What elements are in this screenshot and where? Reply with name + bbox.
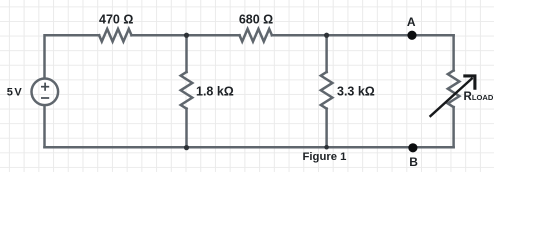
svg-text:A: A xyxy=(407,15,416,29)
wire branch 1.8k top xyxy=(185,35,188,72)
svg-text:5V: 5V xyxy=(7,86,23,98)
svg-text:RLOAD: RLOAD xyxy=(464,91,494,103)
resistor R4 3.3k zigzag xyxy=(321,72,333,109)
potentiometer arrow head xyxy=(463,76,475,90)
svg-text:470 Ω: 470 Ω xyxy=(99,13,133,27)
wire branch 3.3k top xyxy=(325,35,328,72)
voltage source minus sign xyxy=(41,97,49,99)
svg-text:3.3 kΩ: 3.3 kΩ xyxy=(337,84,375,98)
junction dot bottom 1.8k xyxy=(184,145,189,150)
wire left vertical bottom xyxy=(43,105,46,147)
node B dot xyxy=(408,143,417,152)
resistor RLOAD zigzag xyxy=(448,71,460,108)
junction dot top 1.8k xyxy=(184,33,189,38)
voltage source plus sign xyxy=(41,83,49,98)
svg-text:680 Ω: 680 Ω xyxy=(239,13,273,27)
wire top middle xyxy=(132,34,240,37)
junction dot bottom 3.3k xyxy=(324,145,329,150)
wire right vertical bottom xyxy=(452,107,455,147)
junction dot top 3.3k xyxy=(324,33,329,38)
wire right vertical top xyxy=(452,35,455,70)
wire branch 3.3k bottom xyxy=(325,109,328,148)
wire top left xyxy=(45,35,100,78)
resistor R3 1.8k zigzag xyxy=(181,72,193,109)
wire branch 1.8k bottom xyxy=(185,109,188,148)
node A dot xyxy=(407,31,416,40)
voltage source V1 circle xyxy=(32,79,59,106)
wire bottom xyxy=(45,146,454,149)
svg-text:Figure 1: Figure 1 xyxy=(303,151,347,163)
resistor R2 680 ohm zigzag xyxy=(240,29,272,42)
resistor R1 470 ohm zigzag xyxy=(99,29,131,42)
svg-text:B: B xyxy=(409,155,418,169)
svg-text:1.8 kΩ: 1.8 kΩ xyxy=(196,84,234,98)
potentiometer arrow shaft xyxy=(430,78,473,117)
wire top right xyxy=(272,34,454,37)
